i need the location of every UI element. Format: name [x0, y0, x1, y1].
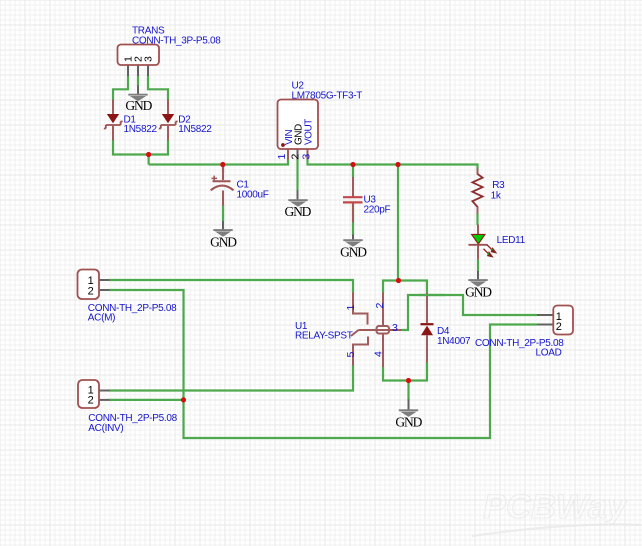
svg-text:GND: GND [210, 235, 237, 250]
svg-text:3: 3 [301, 154, 313, 160]
svg-text:2: 2 [374, 303, 386, 309]
svg-text:AC(M): AC(M) [88, 312, 115, 323]
svg-text:1: 1 [276, 154, 288, 160]
svg-text:LM7805G-TF3-T: LM7805G-TF3-T [292, 91, 363, 102]
svg-text:PCBWay: PCBWay [483, 488, 628, 526]
svg-text:GND: GND [125, 98, 152, 113]
svg-text:4: 4 [372, 351, 384, 357]
svg-text:1k: 1k [491, 191, 502, 202]
svg-text:CONN-TH_3P-P5.08: CONN-TH_3P-P5.08 [132, 36, 221, 47]
svg-text:2: 2 [88, 285, 94, 297]
svg-text:AC(INV): AC(INV) [88, 423, 123, 434]
svg-text:3: 3 [392, 322, 398, 334]
svg-text:GND: GND [340, 245, 367, 260]
svg-text:VOUT: VOUT [304, 119, 315, 145]
svg-text:LED11: LED11 [497, 235, 526, 246]
svg-text:RELAY-SPST: RELAY-SPST [295, 331, 353, 342]
svg-text:1N4007: 1N4007 [437, 336, 471, 347]
svg-text:GND: GND [395, 415, 422, 430]
svg-text:1000uF: 1000uF [237, 190, 269, 201]
svg-text:2: 2 [556, 321, 562, 333]
svg-text:5: 5 [345, 352, 357, 358]
svg-text:220pF: 220pF [364, 204, 391, 215]
svg-text:LOAD: LOAD [535, 348, 561, 359]
svg-text:GND: GND [284, 204, 311, 219]
svg-text:3: 3 [143, 56, 155, 62]
svg-text:1N5822: 1N5822 [124, 124, 158, 135]
svg-text:1N5822: 1N5822 [178, 124, 212, 135]
svg-text:2: 2 [88, 394, 94, 406]
svg-text:GND: GND [465, 285, 492, 300]
svg-text:1: 1 [345, 305, 357, 311]
